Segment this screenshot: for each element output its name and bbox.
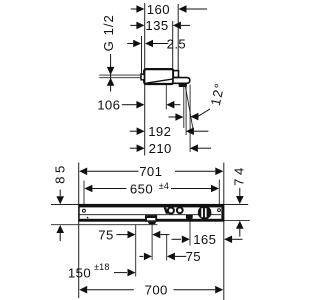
svg-text:650: 650 [130,181,153,196]
extension line R7 [166,235,168,261]
svg-text:74: 74 [232,164,247,186]
svg-text:85: 85 [53,162,68,184]
svg-text:150: 150 [68,265,91,280]
small control below buttons [186,215,193,219]
extension line 192-right L5 [185,87,187,135]
dim 192 [130,124,209,139]
dim 150+-18 [68,262,136,280]
spout bar side view [173,78,190,84]
extension line wall L2 [141,36,143,76]
bar divider line [79,214,221,216]
extension line union R5 [135,225,137,277]
bar top band [79,205,224,208]
dim 210 [130,141,211,156]
extension line spout-center R6 [151,224,153,261]
svg-text:75: 75 [186,249,201,264]
bottom level line H2 [51,224,157,226]
svg-text:210: 210 [149,141,172,156]
water stream slanted [186,87,193,129]
product bar front view [79,205,224,222]
bar bottom band [79,219,224,221]
svg-text:192: 192 [148,124,171,139]
dim 160 [131,2,207,17]
select button 2 [177,207,183,213]
select button slant mark [164,208,169,214]
top edge level line left H1a [51,204,79,206]
svg-text:±18: ±18 [94,262,110,272]
svg-text:106: 106 [97,98,120,113]
dim 12deg arrows [169,109,211,121]
spout front view [145,215,157,224]
svg-text:160: 160 [147,2,170,17]
dim 700 [79,283,223,298]
left screw hole [82,209,85,212]
extension line R8 [189,219,191,246]
water stream vertical [183,87,185,128]
svg-text:G 1/2: G 1/2 [101,14,116,51]
step box side view [173,71,178,78]
svg-text:701: 701 [139,164,162,179]
dim 75 first [98,227,169,242]
dim 650+-4 [84,181,219,197]
dim 701 [79,164,223,179]
dim 85 rotated [53,162,68,241]
right screw hole [218,209,221,212]
dim 106 [97,98,180,113]
svg-text:165: 165 [193,232,216,247]
body diagonal [147,79,174,83]
svg-text:700: 700 [145,283,168,298]
extension line 106-right L7 [165,85,167,110]
bar right edge thick [221,205,223,221]
select button 1 [168,208,174,214]
top edge level line right H1b [224,204,248,206]
extension line product-right R4 [223,163,225,300]
extension line body-back L1 [144,3,146,156]
extension line 210-right L6 [189,85,191,153]
aerator side view [179,83,187,87]
svg-text:2.5: 2.5 [167,36,187,51]
dim 135 [130,18,190,33]
dim 75 second [140,249,202,264]
faucet body side view [144,69,173,84]
svg-text:75: 75 [98,227,113,242]
extension line product-left R1 [78,163,80,299]
svg-text:135: 135 [145,18,168,33]
dim 2.5 [127,36,186,51]
dim 165 [172,232,243,247]
extension line left-screw R2 [83,181,85,209]
svg-text:±4: ±4 [159,181,169,191]
G1/2 nub side view [141,74,144,80]
extension line 160-right L4 [177,4,179,72]
bottom level line right H3 [224,219,250,221]
tiny dot in bar [87,217,89,219]
extension line right-screw R3 [218,180,220,208]
dim 74 rotated [232,164,247,236]
dim G1/2 leader [99,54,141,92]
extension line 135-right L3 [172,21,174,69]
thermostat dial [198,206,212,220]
